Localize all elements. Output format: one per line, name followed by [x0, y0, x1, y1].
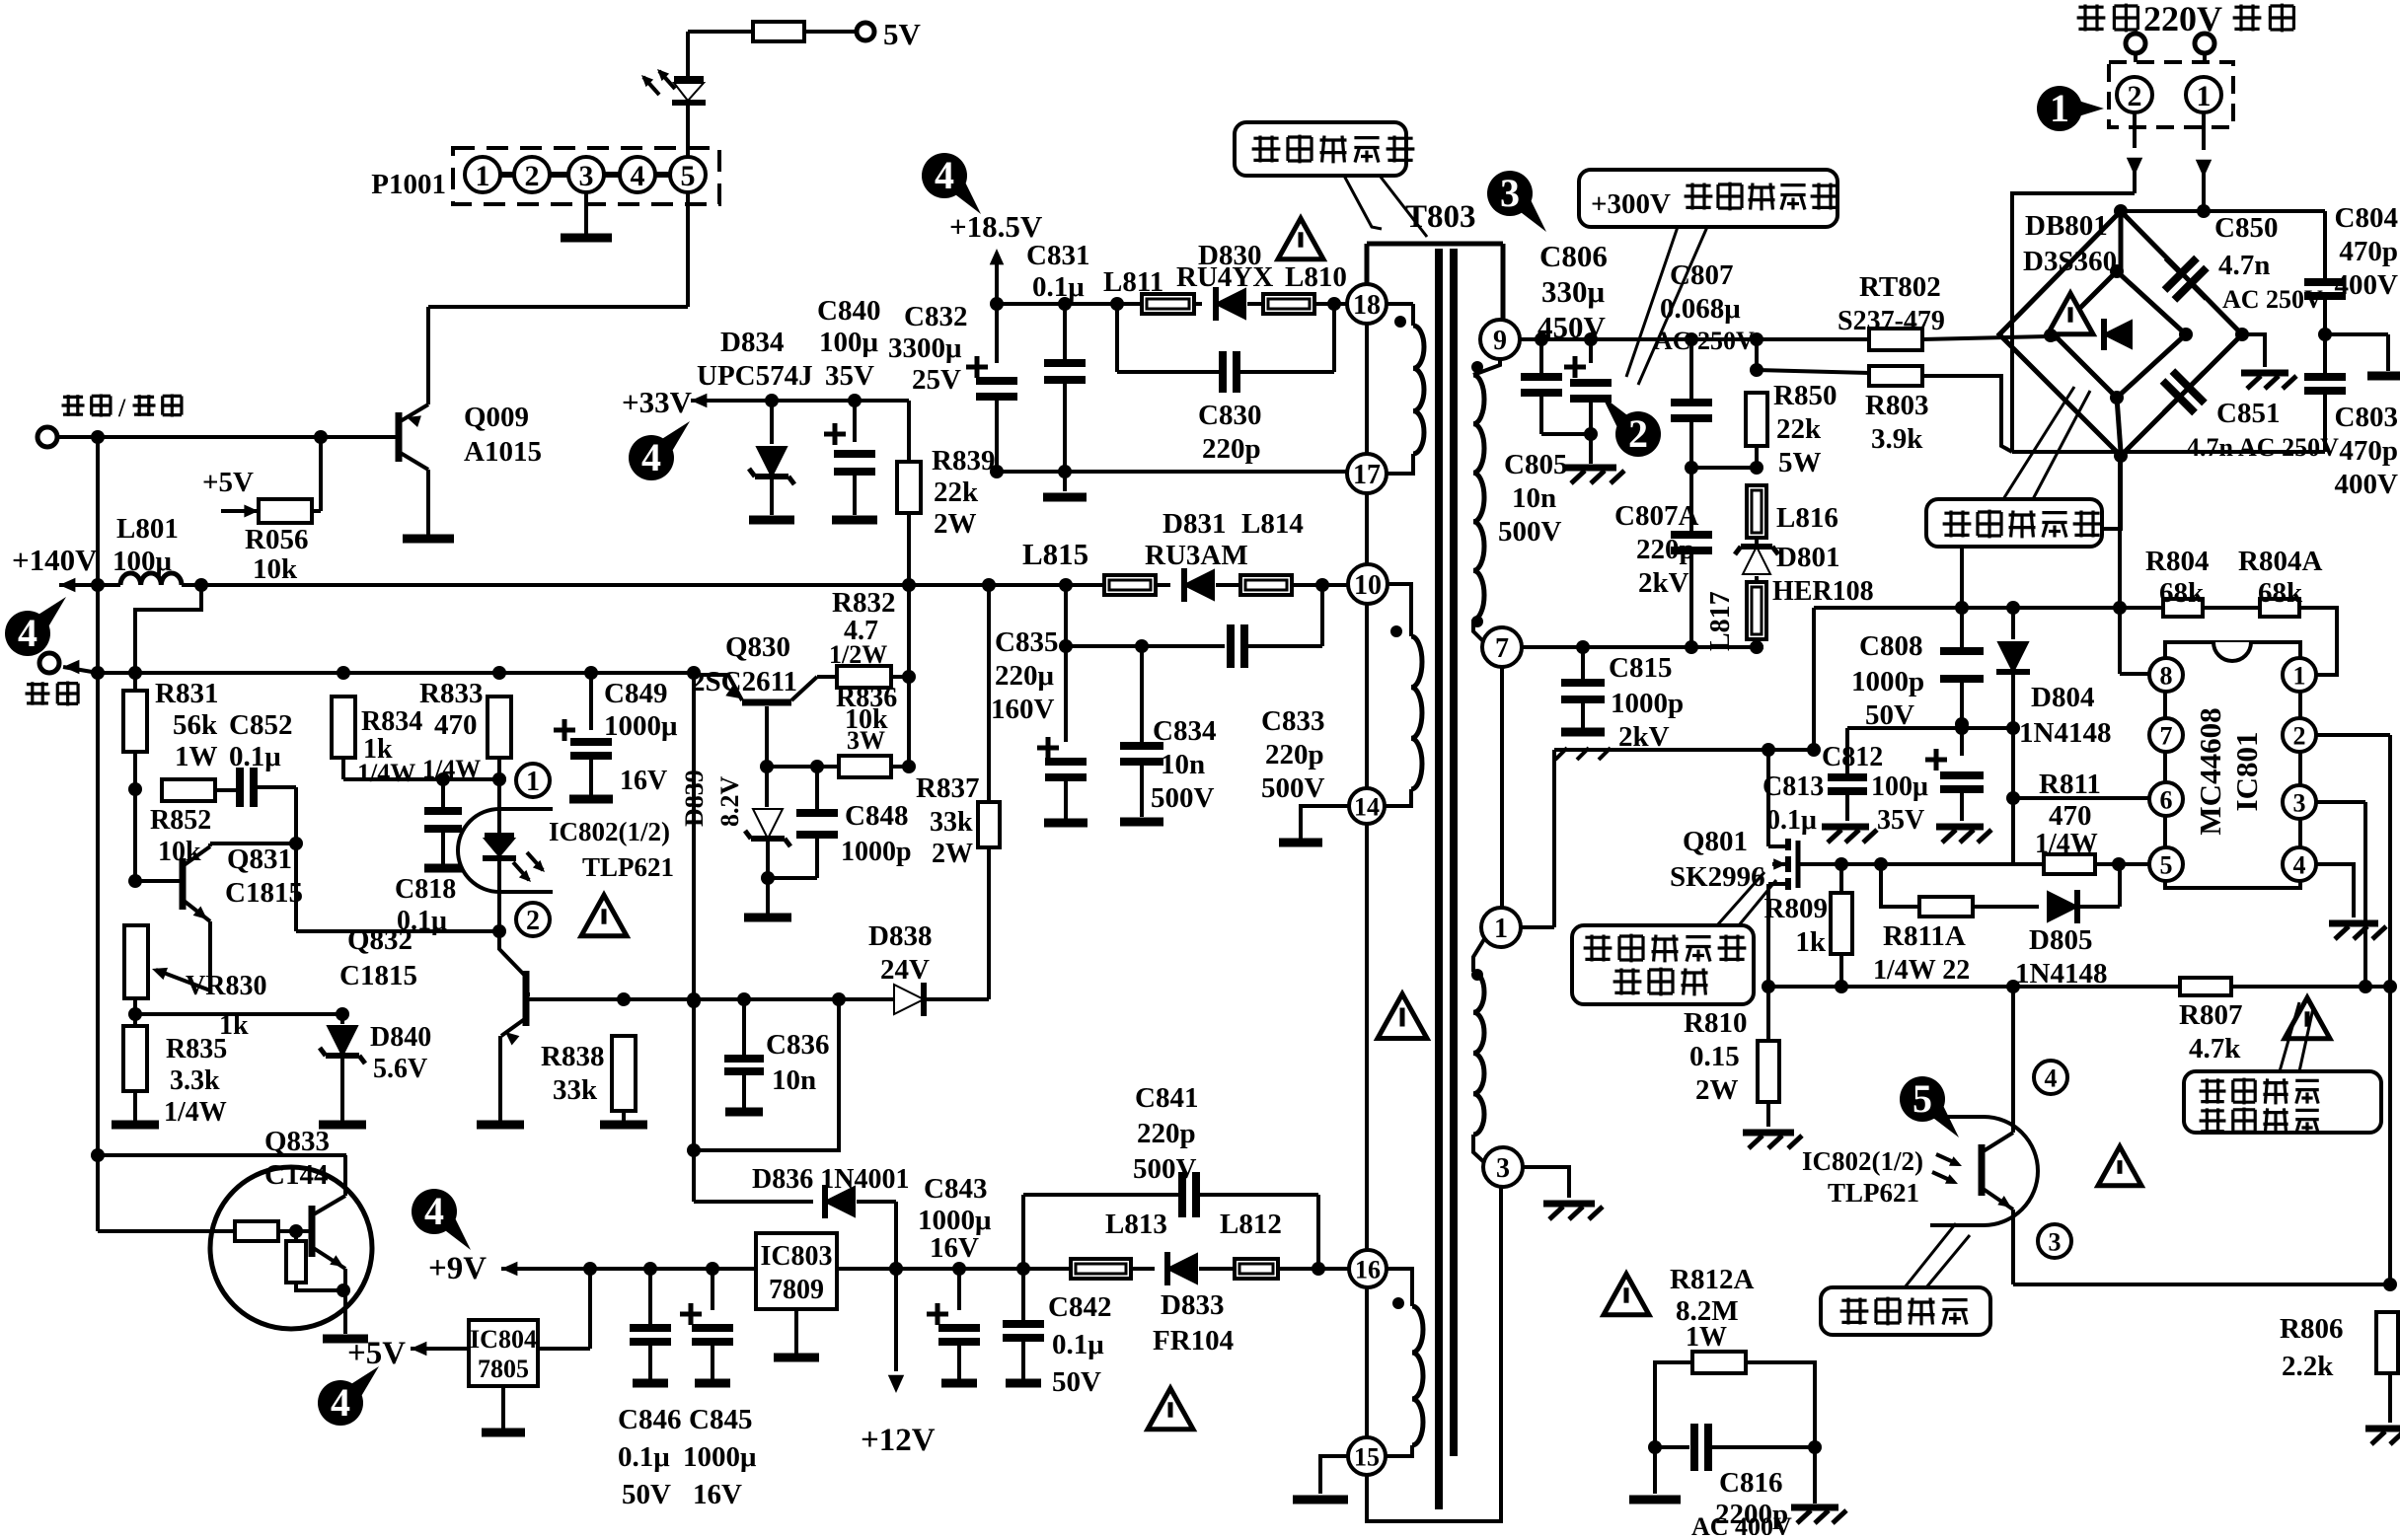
- capacitor C842: [1003, 1269, 1044, 1383]
- svg-text:R807: R807: [2179, 999, 2242, 1031]
- svg-text:R812A: R812A: [1670, 1264, 1754, 1295]
- capacitor C835: [1037, 737, 1087, 823]
- C845 label: [683, 1404, 757, 1510]
- svg-text:C816: C816: [1719, 1467, 1782, 1499]
- bubble 4 5V: [318, 1366, 379, 1426]
- MOSFET Q801: [1768, 839, 1798, 890]
- ground C831: [1043, 472, 1087, 497]
- resistor R804A: [2203, 599, 2299, 617]
- L817 label: [1705, 591, 1736, 651]
- svg-text:1000p: 1000p: [1611, 688, 1684, 719]
- svg-text:25V: 25V: [912, 364, 961, 396]
- wire pin3 gnd: [1523, 1167, 1603, 1219]
- svg-text:DB801: DB801: [2025, 210, 2108, 242]
- svg-text:220p: 220p: [1137, 1118, 1196, 1149]
- svg-text:R852: R852: [150, 805, 211, 836]
- P1001 label: [371, 169, 446, 200]
- arrow +18.5V: [990, 249, 1005, 304]
- transistor Q832: [499, 931, 530, 1046]
- +5V label: [202, 467, 254, 498]
- winding dot pin10: [1390, 625, 1402, 637]
- column R839/R832 x=921: [907, 585, 911, 767]
- wire bridge-bottom col to pin8: [2120, 456, 2148, 674]
- svg-text:16V: 16V: [693, 1479, 742, 1510]
- C813 label: [1762, 771, 1824, 836]
- transistor Q831: [135, 846, 210, 921]
- svg-text:3: 3: [1496, 1153, 1510, 1184]
- wire pin2 to R806 col: [2316, 735, 2390, 1284]
- C803 label: [2335, 402, 2399, 500]
- wire base feed: [98, 1155, 235, 1231]
- ground R806: [2365, 1373, 2400, 1444]
- warning triangle IC802: [581, 895, 627, 935]
- svg-text:R834: R834: [361, 706, 422, 737]
- svg-text:3: 3: [2293, 788, 2306, 817]
- svg-text:R833: R833: [419, 678, 483, 709]
- wire C831 C832 bottom row: [990, 465, 1348, 478]
- svg-text:400V: 400V: [2335, 269, 2399, 301]
- transistor Q833 body circle: [210, 1167, 372, 1329]
- svg-text:R806: R806: [2280, 1313, 2343, 1345]
- inductor L801: [120, 573, 182, 585]
- T803 pin 16: [1349, 1250, 1387, 1287]
- R835 label: [164, 1034, 227, 1128]
- svg-text:C834: C834: [1153, 715, 1216, 747]
- svg-text:C833: C833: [1261, 705, 1324, 737]
- D805 label: [2015, 924, 2107, 990]
- IC804 label: [470, 1325, 537, 1383]
- IC804 box: [469, 1320, 538, 1386]
- C842 label: [1048, 1291, 1111, 1398]
- svg-text:R810: R810: [1684, 1007, 1747, 1039]
- wire VR830 to R835: [128, 998, 142, 1026]
- ground D840: [319, 1121, 366, 1130]
- C846 label: [618, 1404, 681, 1510]
- svg-text:2W: 2W: [932, 839, 973, 869]
- wire pin2 row: [296, 929, 499, 933]
- C812 label: [1822, 742, 1928, 836]
- capacitor C808: [1940, 608, 1984, 731]
- wire Q833 collector: [343, 1155, 347, 1196]
- svg-text:4.7n AC 250V: 4.7n AC 250V: [2187, 433, 2339, 462]
- inductor L813: [1071, 1259, 1131, 1279]
- IC802 LED cathode: [492, 858, 506, 938]
- R831 label: [155, 678, 218, 772]
- wire R837 top: [987, 585, 991, 802]
- svg-text:C836: C836: [766, 1029, 829, 1061]
- svg-text:C832: C832: [904, 301, 967, 332]
- +140V label: [12, 543, 98, 577]
- svg-text:Q832: Q832: [347, 924, 412, 956]
- svg-text:4.7k: 4.7k: [2189, 1033, 2241, 1064]
- wire D838 to R837: [924, 847, 989, 999]
- svg-text:220p: 220p: [1265, 739, 1324, 770]
- svg-text:D801: D801: [1776, 542, 1839, 573]
- svg-text:C849: C849: [604, 678, 667, 709]
- svg-text:C852: C852: [229, 709, 292, 741]
- wire col x703: [687, 673, 701, 1202]
- C849 label: [604, 678, 678, 796]
- inductor L801 label: [112, 513, 179, 577]
- winding dot pin7: [1471, 616, 1483, 627]
- diode D830: [1194, 287, 1263, 321]
- wire AC1 down: [2196, 112, 2212, 218]
- resistor R811A: [1881, 864, 1973, 917]
- D836 label: [752, 1164, 909, 1195]
- svg-text:10k: 10k: [253, 553, 298, 585]
- terminal 5V: [857, 17, 922, 51]
- wire R850-C807A link: [1691, 446, 1763, 475]
- IC802-2 labels: [1802, 1146, 1923, 1208]
- svg-text:7: 7: [1495, 633, 1509, 664]
- thermistor RT802: [1869, 329, 2058, 350]
- wire R834 bottom: [343, 758, 506, 786]
- P1001 pin 1: [465, 157, 500, 192]
- wire to pin18: [1314, 297, 1348, 311]
- svg-text:AC 250V: AC 250V: [1654, 327, 1755, 355]
- wire Q801 source col: [1762, 884, 1775, 1041]
- wire standby to Q009 base: [57, 430, 399, 444]
- svg-text:C813: C813: [1762, 771, 1824, 802]
- svg-text:3: 3: [579, 160, 594, 192]
- C816 label2: [1691, 1512, 1792, 1540]
- R850 label: [1773, 380, 1837, 478]
- ground bridge right: [2241, 334, 2296, 389]
- IC801 pin 3: [2283, 785, 2316, 819]
- D831 label: [1145, 508, 1248, 571]
- C807 label: [1654, 259, 1755, 355]
- svg-text:T803: T803: [1405, 199, 1476, 235]
- DB801 label: [2023, 210, 2117, 277]
- svg-text:1: 1: [2197, 80, 2212, 112]
- pin 4 circle: [2034, 1061, 2067, 1094]
- wire C833 row: [1059, 639, 1225, 653]
- wire IC802-2 collector: [2011, 987, 2015, 1133]
- wire top aux row: [1847, 721, 2020, 735]
- ground R835: [112, 1091, 159, 1125]
- bridge DB801 outer diamond: [1999, 211, 2242, 456]
- svg-text:33k: 33k: [553, 1074, 598, 1106]
- svg-text:D805: D805: [2029, 924, 2092, 956]
- resistor R838: [612, 1036, 636, 1111]
- wire Q830 emitter: [760, 706, 774, 773]
- resistor R836: [767, 756, 916, 777]
- resistor R803: [1757, 366, 2012, 452]
- pin 3 circle: [2038, 1224, 2071, 1258]
- +33V label: [622, 385, 693, 419]
- terminal standby: [37, 427, 57, 447]
- D839 label: [680, 770, 744, 827]
- T803 pin 1: [1481, 908, 1521, 947]
- svg-text:A1015: A1015: [464, 436, 542, 468]
- capacitor C816: [1648, 1424, 1822, 1471]
- L812 label: [1220, 1209, 1282, 1240]
- IC801 pin 6: [2149, 782, 2183, 816]
- svg-text:2W: 2W: [1695, 1074, 1739, 1106]
- svg-text:1: 1: [526, 767, 540, 797]
- C832 label: [888, 301, 967, 396]
- warning triangle R812A: [1604, 1274, 1649, 1314]
- svg-text:3: 3: [1500, 171, 1520, 215]
- svg-text:50V: 50V: [1052, 1366, 1101, 1398]
- ground R810: [1743, 1102, 1802, 1148]
- svg-text:160V: 160V: [991, 694, 1055, 725]
- svg-text:2SC2611: 2SC2611: [691, 666, 797, 697]
- svg-text:10n: 10n: [1161, 749, 1205, 780]
- D833 label: [1153, 1289, 1234, 1357]
- T803 winding 1-3: [1473, 939, 1486, 1164]
- bubble 4 9V: [412, 1189, 471, 1250]
- svg-text:L801: L801: [116, 513, 179, 545]
- Q833 internal shunt resistor: [286, 1231, 350, 1297]
- P1001 pin 4: [620, 157, 655, 192]
- transformer bottom U: [1367, 1184, 1501, 1521]
- svg-text:C841: C841: [1135, 1082, 1198, 1114]
- light arrows IC802-2: [1932, 1154, 1962, 1184]
- wire 140V branch down: [135, 585, 201, 691]
- C831 label: [1026, 240, 1089, 303]
- svg-text:7: 7: [2160, 721, 2173, 750]
- svg-text:1: 1: [1494, 914, 1508, 944]
- wire R804 row: [1814, 601, 2163, 615]
- svg-text:3300μ: 3300μ: [888, 332, 962, 364]
- svg-text:D831: D831: [1162, 508, 1226, 540]
- ground C805/C806: [1565, 434, 1624, 483]
- wire bridge to R804 row: [1962, 456, 2121, 608]
- inductor L814: [1240, 575, 1292, 595]
- ground Q009: [403, 535, 454, 544]
- svg-text:C808: C808: [1859, 630, 1922, 662]
- svg-text:0.1μ: 0.1μ: [1052, 1329, 1104, 1360]
- capacitor C803: [2304, 334, 2346, 452]
- svg-text:1k: 1k: [1795, 926, 1827, 958]
- capacitor C852: [215, 768, 296, 807]
- svg-text:220μ: 220μ: [995, 660, 1055, 692]
- svg-text:1W: 1W: [175, 741, 218, 772]
- svg-text:4: 4: [935, 153, 954, 197]
- capacitor C812: [1925, 728, 1991, 843]
- wire R811 junction col: [2006, 724, 2148, 907]
- IC801 pin 4: [2283, 847, 2316, 881]
- diode D833: [1131, 1252, 1235, 1285]
- svg-text:R831: R831: [155, 678, 218, 709]
- arrow +33V: [691, 394, 707, 408]
- capacitor C834: [1120, 646, 1163, 822]
- terminal reset: [39, 653, 59, 673]
- svg-text:C831: C831: [1026, 240, 1089, 271]
- T803 pin 15: [1348, 1437, 1386, 1475]
- transformer top bracket: [1367, 244, 1503, 320]
- connector P1001 dashed box: [453, 148, 719, 204]
- wire +33V row: [691, 394, 909, 407]
- L811 label: [1103, 261, 1347, 298]
- C850 label: [2214, 212, 2323, 314]
- svg-text:4: 4: [2293, 850, 2306, 879]
- svg-text:+5V: +5V: [347, 1336, 406, 1371]
- callout switch transformer (开关变压器): [1235, 122, 1427, 237]
- svg-text:2: 2: [525, 160, 540, 192]
- wire pin7-pin1: [1500, 667, 1504, 908]
- resistor R812A: [1655, 1352, 1815, 1503]
- svg-text:C845: C845: [689, 1404, 752, 1435]
- svg-text:R835: R835: [166, 1034, 227, 1064]
- capacitor C804: [2304, 211, 2346, 341]
- svg-text:C805: C805: [1504, 449, 1567, 480]
- zener D801: [1735, 538, 1778, 582]
- IC801 pin 7: [2149, 718, 2183, 752]
- wire pin15 gnd: [1293, 1456, 1348, 1500]
- C807A label: [1614, 500, 1698, 599]
- svg-text:100μ: 100μ: [1871, 771, 1928, 802]
- svg-text:VR830: VR830: [186, 971, 266, 1001]
- svg-text:1: 1: [2050, 86, 2069, 130]
- phototransistor Q-IC802: [1982, 1133, 2013, 1210]
- R852 label: [150, 805, 211, 867]
- +12V stub: [861, 1269, 936, 1458]
- R806 label: [2280, 1313, 2343, 1382]
- capacitor C831: [1044, 304, 1086, 472]
- IC802 LED: [483, 772, 545, 882]
- svg-text:6: 6: [2160, 785, 2173, 814]
- svg-text:Q830: Q830: [725, 631, 790, 663]
- wire pin links: [500, 172, 670, 178]
- inductor L810: [1263, 294, 1314, 314]
- arrow +5V: [411, 1342, 469, 1357]
- T803 winding 9-7: [1473, 359, 1500, 643]
- svg-text:1/4W: 1/4W: [164, 1097, 227, 1128]
- svg-text:C1815: C1815: [339, 960, 417, 991]
- ground C816 right: [1791, 1507, 1846, 1523]
- R803 label: [1865, 390, 1928, 455]
- svg-text:220p: 220p: [1636, 534, 1695, 565]
- optocoupler IC802 body: [458, 809, 553, 892]
- arrow reset: [63, 660, 98, 675]
- wire bridge top row: [2114, 204, 2325, 218]
- wire to D840: [135, 1007, 349, 1021]
- svg-text:C851: C851: [2216, 398, 2280, 429]
- T803 pin 18: [1347, 284, 1387, 324]
- C834 label: [1151, 715, 1216, 814]
- warning triangle IC802-2: [2098, 1146, 2141, 1186]
- svg-text:R850: R850: [1773, 380, 1837, 411]
- warning triangle IC801: [2285, 997, 2330, 1038]
- arrow +5V: [221, 505, 259, 518]
- wire z-route: [694, 999, 839, 1150]
- svg-text:1/4W: 1/4W: [357, 759, 415, 787]
- svg-text:22k: 22k: [1776, 413, 1822, 445]
- svg-text:2kV: 2kV: [1638, 567, 1689, 599]
- C808 label: [1851, 630, 1924, 731]
- transformer core: [1439, 249, 1454, 1509]
- C804 label: [2335, 202, 2399, 301]
- resistor R832: [817, 666, 916, 688]
- wire LED anode: [686, 32, 690, 77]
- inductor L811: [1142, 294, 1194, 314]
- svg-text:35V: 35V: [825, 360, 874, 392]
- svg-text:35V: 35V: [1877, 805, 1924, 836]
- wire Q801 gate: [1798, 857, 2126, 871]
- svg-text:D804: D804: [2031, 682, 2094, 713]
- svg-text:450V: 450V: [1537, 310, 1607, 344]
- svg-text:IC801: IC801: [2229, 732, 2264, 812]
- C841 label: [1133, 1082, 1198, 1185]
- LED D1001: [641, 69, 706, 103]
- svg-text:L811: L811: [1103, 266, 1163, 298]
- wire AC2 route: [2012, 193, 2135, 452]
- svg-text:2W: 2W: [934, 508, 977, 540]
- svg-text:50V: 50V: [622, 1479, 671, 1510]
- C805 label: [1498, 449, 1567, 548]
- IC803 box: [756, 1233, 837, 1309]
- bridge vertical stubs: [2117, 215, 2121, 452]
- Q830 label: [691, 631, 797, 697]
- svg-text:L817: L817: [1705, 591, 1736, 651]
- wire pin16-15 col: [1365, 1287, 1369, 1437]
- svg-text:R838: R838: [541, 1041, 604, 1072]
- bubble 3: [1487, 171, 1546, 232]
- svg-text:C804: C804: [2335, 202, 2398, 234]
- svg-text:0.1μ: 0.1μ: [618, 1441, 670, 1473]
- wire drain row: [1554, 608, 1821, 757]
- diode D836: [694, 1185, 896, 1218]
- svg-text:S237-479: S237-479: [1837, 306, 1945, 336]
- T803 winding 18-17: [1387, 304, 1424, 474]
- svg-text:1W: 1W: [1686, 1322, 1727, 1353]
- L814 label: [1241, 508, 1304, 540]
- svg-text:8: 8: [2160, 661, 2173, 690]
- svg-text:P1001: P1001: [371, 169, 446, 200]
- C835 label: [991, 626, 1058, 725]
- svg-text:100μ: 100μ: [819, 327, 879, 358]
- Q831 label: [225, 843, 303, 909]
- Q009 label: [464, 402, 542, 468]
- C830 label: [1198, 400, 1261, 465]
- ground stub C803: [2325, 334, 2400, 376]
- resistor R807: [2180, 978, 2231, 995]
- inductor L812: [1235, 1259, 1278, 1279]
- P1001 pin 2: [514, 157, 550, 192]
- bubble 5: [1900, 1076, 1959, 1137]
- svg-text:10: 10: [1354, 570, 1382, 601]
- svg-text:18: 18: [1353, 290, 1381, 321]
- svg-text:C144: C144: [264, 1159, 328, 1191]
- svg-text:R832: R832: [832, 587, 895, 619]
- arrow +9V: [501, 1262, 517, 1277]
- svg-text:R803: R803: [1865, 390, 1928, 421]
- resistor R852: [162, 779, 215, 801]
- wire pin4 ground: [2316, 864, 2386, 939]
- IC801 labels: [2193, 707, 2264, 835]
- wire LED cathode to pin5: [686, 105, 690, 157]
- wire pin17 row: [997, 470, 1347, 474]
- P1001 pin 3: [568, 157, 604, 192]
- svg-text:0.15: 0.15: [1689, 1041, 1740, 1072]
- D801 label: [1772, 542, 1874, 607]
- svg-text:0.1μ: 0.1μ: [1032, 271, 1085, 303]
- C840 label: [817, 295, 880, 392]
- bridge DB801 inner diamond: [2047, 264, 2249, 463]
- svg-text:500V: 500V: [1151, 782, 1215, 814]
- svg-text:1: 1: [476, 160, 490, 192]
- wire pin17-pin10: [1365, 324, 1369, 563]
- svg-text:IC802(1/2): IC802(1/2): [1802, 1146, 1923, 1176]
- AC pin 2: [2117, 77, 2152, 112]
- wire standby column: [96, 437, 100, 585]
- R804 label: [2145, 546, 2209, 609]
- svg-text:+18.5V: +18.5V: [949, 209, 1043, 244]
- svg-text:330μ: 330μ: [1541, 274, 1606, 309]
- capacitor C848: [770, 767, 838, 878]
